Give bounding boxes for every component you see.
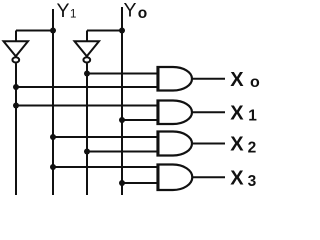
svg-text:Y: Y bbox=[124, 0, 137, 22]
svg-text:X: X bbox=[230, 134, 244, 156]
svg-text:2: 2 bbox=[248, 139, 257, 156]
svg-text:3: 3 bbox=[248, 173, 257, 190]
svg-text:X: X bbox=[230, 102, 244, 124]
svg-text:1: 1 bbox=[70, 9, 76, 21]
svg-text:1: 1 bbox=[248, 108, 257, 125]
svg-text:o: o bbox=[250, 74, 260, 91]
svg-text:X: X bbox=[230, 69, 244, 91]
svg-text:o: o bbox=[138, 5, 147, 22]
svg-text:X: X bbox=[230, 167, 244, 189]
svg-text:Y: Y bbox=[57, 0, 70, 22]
